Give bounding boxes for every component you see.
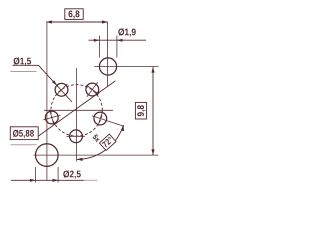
angular dimension arc 72°	[77, 125, 124, 159]
wire: hole A2 radial tick	[87, 82, 98, 96]
wire: main vertical centerline	[76, 68, 78, 162]
wire: horizontal centerline hole B / 9,8 top extension	[94, 66, 159, 68]
wire: hole A5 radial tick	[43, 115, 60, 120]
label box Ø5,88	[10, 127, 38, 140]
leader Ø1,5 arrow	[52, 80, 57, 85]
label box 72° (rotated)	[99, 134, 116, 150]
node: bolt circle Ø5,88 (dashed)	[51, 85, 102, 136]
wire: faint ghost line left lower	[11, 144, 37, 146]
label Ø1,9	[118, 28, 135, 36]
wire: hole A2 tangential tick	[86, 85, 98, 94]
dimension Ø1,9 arrows	[94, 39, 123, 42]
wire: faint ghost line left upper	[11, 71, 37, 73]
node: hole A3 right	[94, 112, 107, 125]
node: hole A1 top-left Ø1,5	[55, 83, 68, 96]
wire: extension line Ø2,5 right	[57, 167, 59, 183]
wire: faint extension of bottom dimension line	[84, 179, 98, 181]
dimension 9,8 line	[152, 67, 154, 155]
node: hole B Ø1,9 top-right	[99, 58, 116, 75]
wire: bottom small hole horizontal tick	[67, 135, 86, 137]
leader Ø5,88 arrow	[95, 91, 101, 96]
node: hole A4 bottom	[70, 130, 83, 143]
leader Ø1,5	[13, 65, 73, 102]
wire: main horizontal centerline	[44, 109, 113, 111]
wire: vertical centerline through hole B (x=107.6)	[107, 22, 109, 87]
wire: extension line Ø1,9 left	[98, 36, 100, 58]
leader Ø5,88	[38, 81, 115, 136]
dimension 6,8 line	[46, 21, 107, 23]
dimension 6,8 arrows	[46, 20, 107, 23]
dimension Ø2,5 line	[11, 179, 84, 181]
dimension Ø1,9 line	[89, 39, 147, 41]
dimension Ø2,5 arrows	[30, 179, 58, 182]
label Ø2,5	[63, 170, 81, 178]
wire: horizontal centerline hole C / 9,8 bottom extension	[34, 154, 159, 156]
wire: vertical centerline through hole C (x=46.9)	[46, 22, 48, 180]
node: hole C Ø2,5 bottom-left	[36, 144, 59, 167]
wire: hole A3 radial ray to 72° arc	[92, 116, 124, 126]
label box 9,8 (rotated)	[135, 102, 146, 119]
node: hole A5 left	[45, 111, 58, 124]
wire: extension line Ø1,9 right	[116, 36, 118, 58]
label box 6,8	[65, 9, 83, 20]
label Ø1,5	[14, 57, 32, 65]
arc arrow bottom	[77, 158, 83, 161]
node: hole A2 top-right	[86, 83, 99, 96]
wire: hole A1 tangential tick	[56, 84, 68, 96]
wire: hole A5 tangential tick	[50, 110, 54, 125]
wire: extension line Ø2,5 left	[35, 167, 37, 183]
wire: hole A3 tangential tick	[98, 111, 103, 125]
label 5x (rotated)	[92, 134, 101, 143]
dimension 9,8 arrows	[151, 67, 154, 155]
arc arrow top	[121, 125, 124, 131]
